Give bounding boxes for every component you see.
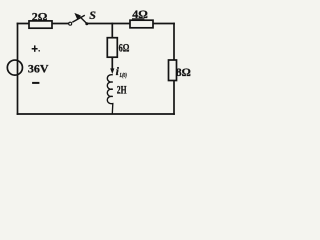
svg-text:2H: 2H bbox=[117, 83, 127, 97]
svg-text:S: S bbox=[89, 8, 96, 22]
svg-text:L(0): L(0) bbox=[119, 72, 127, 79]
svg-text:8Ω: 8Ω bbox=[176, 67, 191, 79]
svg-text:36V: 36V bbox=[28, 62, 49, 76]
svg-text:6Ω: 6Ω bbox=[119, 43, 130, 55]
svg-text:2Ω: 2Ω bbox=[32, 9, 48, 23]
